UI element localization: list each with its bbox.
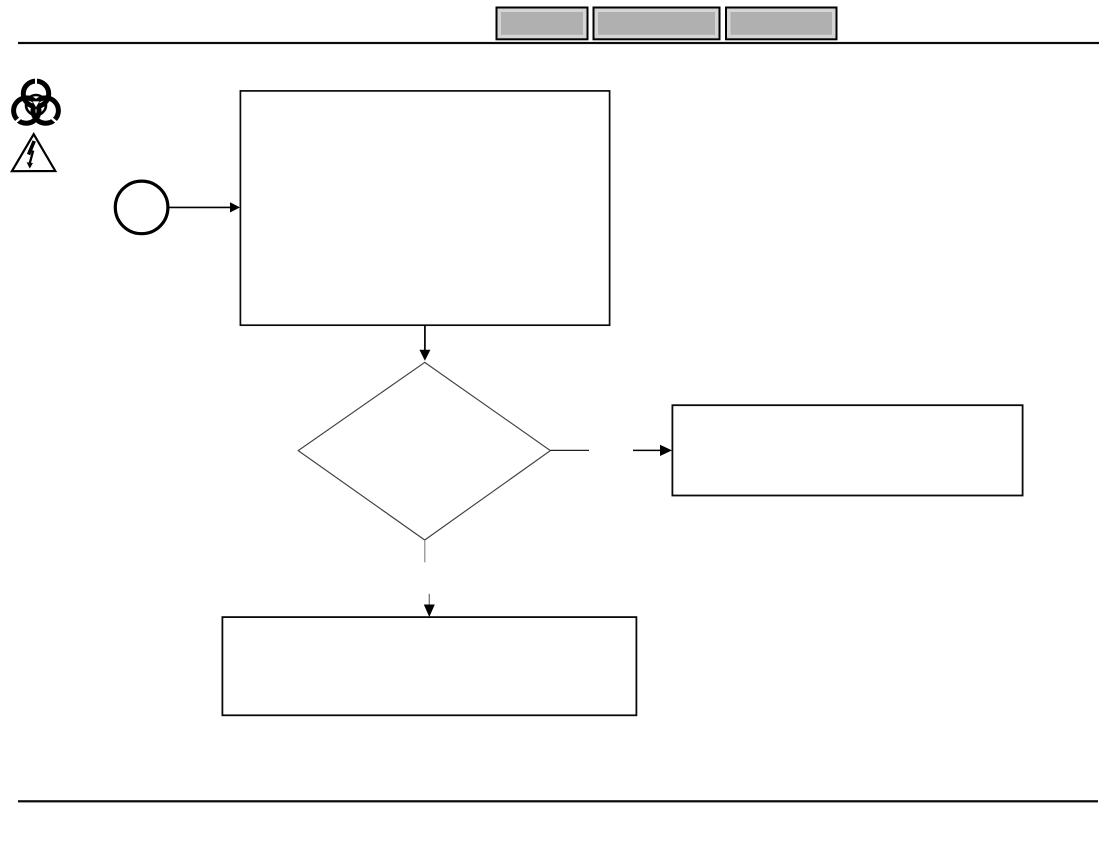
start circle: [115, 181, 168, 234]
process box: [240, 91, 609, 325]
top horizontal rule: [18, 42, 1099, 44]
connector: diamond bottom segment: [424, 540, 426, 562]
biohazard icon: [14, 79, 59, 124]
connector: diamond right segment: [551, 449, 590, 451]
arrow: into bottom box: [424, 594, 435, 617]
arrow: circle to process box: [169, 202, 240, 212]
right result box: [672, 405, 1022, 495]
arrow: into right result box: [633, 445, 672, 456]
toolbar button 3: [725, 7, 838, 41]
arrow: process box to diamond: [419, 325, 430, 361]
toolbar button 1: [496, 7, 589, 41]
decision diamond: [298, 362, 550, 540]
toolbar button 2: [593, 7, 721, 41]
bottom horizontal rule: [18, 800, 1098, 802]
electrical hazard icon: [12, 134, 55, 171]
bottom box: [222, 617, 636, 715]
